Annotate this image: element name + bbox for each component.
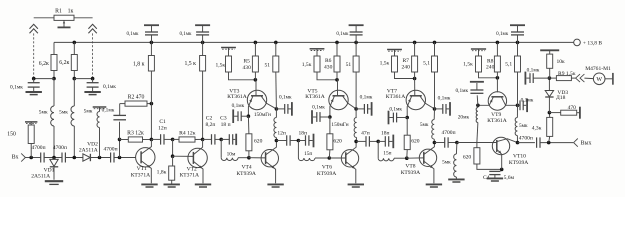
resistor R9 1,5к xyxy=(549,71,575,81)
node int4 xyxy=(455,141,459,145)
capacitor 0,1мк right bias xyxy=(87,79,117,91)
junction on supply rail xyxy=(354,41,358,45)
node VT3 emitter xyxy=(247,114,251,118)
svg-text:1,5к: 1,5к xyxy=(463,62,473,68)
junction on supply rail xyxy=(201,41,205,45)
wire VT2 collector column xyxy=(201,42,205,141)
ground VD1 xyxy=(45,181,63,184)
svg-text:4,3к: 4,3к xyxy=(532,125,542,131)
resistor 1,5 к VT2 load xyxy=(184,56,205,72)
node int3 xyxy=(376,140,380,144)
svg-text:150: 150 xyxy=(7,132,16,138)
wire 6,2k right bottom xyxy=(73,42,77,80)
junction on supply rail xyxy=(150,41,154,45)
resistor 1,8 к VT1 load xyxy=(133,56,154,72)
capacitor 0,1мк VT7 collector xyxy=(435,96,451,116)
resistor 1,5к VT3 xyxy=(215,56,231,72)
ground VT8 emitter xyxy=(426,184,442,187)
svg-text:КТ361А: КТ361А xyxy=(487,118,506,124)
tuning arrow right xyxy=(88,24,96,33)
junction on supply rail xyxy=(496,41,500,45)
svg-text:0,1мк: 0,1мк xyxy=(496,31,509,37)
ground bar C3 xyxy=(233,134,236,145)
ground right bias xyxy=(84,92,100,95)
svg-text:470: 470 xyxy=(568,105,577,111)
svg-text:5мк: 5мк xyxy=(519,123,528,129)
inductor 15п coupling coil 2 xyxy=(378,141,407,160)
ground left bias xyxy=(26,92,42,95)
diode VD3 Д18 xyxy=(545,78,568,113)
dashed tuning line right xyxy=(92,33,94,78)
resistor 1,5к VT9 xyxy=(463,56,481,72)
svg-text:КТ361А: КТ361А xyxy=(386,94,405,100)
svg-text:1к: 1к xyxy=(68,9,74,15)
resistor 5,1 VT9 xyxy=(505,42,520,105)
inductor 5мк choke 3 xyxy=(84,107,107,158)
svg-text:0,1мк: 0,1мк xyxy=(232,103,245,109)
node VT9 collector xyxy=(516,104,520,108)
svg-text:0,1мк: 0,1мк xyxy=(179,31,192,37)
svg-text:5мк: 5мк xyxy=(442,159,451,165)
svg-text:0,1мк: 0,1мк xyxy=(438,96,451,102)
capacitor 4700п input 2 xyxy=(53,145,67,163)
svg-text:8,2п: 8,2п xyxy=(205,122,215,128)
resistor 1,5к VT7 xyxy=(380,56,398,72)
chassis bar over 1,5к VT7 xyxy=(387,50,402,57)
svg-text:5мк: 5мк xyxy=(420,122,429,128)
svg-text:4700п: 4700п xyxy=(519,136,533,142)
node int2b left xyxy=(275,139,279,143)
ground VT4 emitter xyxy=(267,184,283,187)
capacitor 0,1мк VT9 collector xyxy=(518,97,534,112)
capacitor 0,1мк rail decoupling xyxy=(179,25,210,42)
svg-text:5мк: 5мк xyxy=(39,110,48,116)
transistor VT7 КТ361А xyxy=(386,79,435,118)
node int2 xyxy=(219,138,223,142)
capacitor 0,1мк VT3 collector xyxy=(276,95,292,116)
node R2-collector xyxy=(150,102,154,106)
capacitor 0,1мк rail decoupling xyxy=(126,25,159,42)
capacitor 12п xyxy=(276,131,298,146)
terminal +13,8 V xyxy=(574,39,603,46)
svg-text:5мк: 5мк xyxy=(59,110,68,116)
svg-text:VT8: VT8 xyxy=(405,164,415,170)
svg-text:КТ939А: КТ939А xyxy=(317,171,336,177)
svg-text:620: 620 xyxy=(254,139,263,145)
node VT3 collector xyxy=(275,107,279,111)
svg-text:620: 620 xyxy=(463,154,472,160)
svg-text:620: 620 xyxy=(411,139,420,145)
svg-text:5,1: 5,1 xyxy=(505,61,512,67)
svg-text:12п: 12п xyxy=(277,131,286,137)
svg-text:С2: С2 xyxy=(206,115,213,121)
svg-text:1,5к: 1,5к xyxy=(380,61,390,67)
resistor R6 430 xyxy=(324,42,340,79)
svg-text:0,1мк: 0,1мк xyxy=(126,31,139,37)
node VT2 base column xyxy=(171,138,175,142)
svg-text:0,1мк: 0,1мк xyxy=(103,84,116,90)
svg-text:0,1мк: 0,1мк xyxy=(360,95,373,101)
ground C4 xyxy=(487,178,503,181)
capacitor 4700п output xyxy=(518,136,541,148)
wire divider VT9 xyxy=(479,72,500,80)
svg-text:КТ939А: КТ939А xyxy=(509,160,528,166)
wire bias row left xyxy=(32,77,54,81)
resistor 620 VT10 xyxy=(463,148,480,164)
wire 620 to emitter xyxy=(477,164,502,169)
svg-text:51: 51 xyxy=(346,62,352,68)
resistor 4,3к xyxy=(532,113,553,143)
node VD1 xyxy=(52,156,56,160)
svg-text:240: 240 xyxy=(486,65,495,71)
transistor VT8 КТ939А xyxy=(401,143,437,184)
resistor 6,2к left xyxy=(39,55,57,71)
svg-text:1,5 к: 1,5 к xyxy=(184,61,196,67)
junction on supply rail xyxy=(73,41,77,45)
inductor 5мк VT9 choke xyxy=(515,105,528,142)
ground VT6 emitter xyxy=(348,184,364,187)
svg-text:1,8к: 1,8к xyxy=(157,170,167,176)
node VT7 emitter xyxy=(405,116,409,120)
svg-text:12п: 12п xyxy=(158,125,167,131)
inductor 150мГн VT3 xyxy=(254,109,277,141)
transistor VT6 КТ939А xyxy=(317,141,359,183)
svg-text:150мГн: 150мГн xyxy=(254,112,271,118)
node VT1 base xyxy=(118,156,122,160)
junction on supply rail xyxy=(274,41,278,45)
resistor 5,1 VT7 xyxy=(423,42,437,109)
resistor 51 VT5 xyxy=(346,42,359,109)
svg-text:КТ939А: КТ939А xyxy=(236,171,255,177)
wire int4 to VT10 base xyxy=(457,142,497,144)
transistor VT4 КТ939А xyxy=(236,141,278,184)
svg-text:R3 12к: R3 12к xyxy=(127,130,144,136)
inductor 5мк VT7 choke xyxy=(420,109,435,143)
resistor R2 470 xyxy=(120,94,152,106)
svg-text:R6: R6 xyxy=(325,58,332,64)
inductor 15п coupling coil xyxy=(298,141,329,161)
svg-text:4700п: 4700п xyxy=(103,147,117,153)
lamp terminal bar xyxy=(605,73,613,85)
capacitor 0,1мк left bias xyxy=(10,79,40,91)
svg-text:R5: R5 xyxy=(243,59,250,65)
wire +13.8V supply rail xyxy=(54,41,574,43)
transistor VT9 КТ361А xyxy=(478,78,518,124)
svg-text:15п: 15п xyxy=(304,151,312,157)
svg-text:R8: R8 xyxy=(487,58,494,64)
wire R1 right xyxy=(74,17,93,19)
svg-text:С1: С1 xyxy=(159,119,166,125)
ground VT2 emitter xyxy=(195,184,211,187)
node choke3 xyxy=(98,156,102,160)
capacitor C2 8,2п xyxy=(203,115,222,144)
capacitor 0,1мк VT3 emitter xyxy=(232,103,249,123)
terminal Вых xyxy=(574,139,592,147)
resistor R4 12к xyxy=(173,130,203,142)
svg-text:VT10: VT10 xyxy=(513,153,526,159)
node VT9 emitter xyxy=(476,104,480,108)
inductor 150мГн VT5 xyxy=(331,109,356,141)
node VT4 base xyxy=(247,156,251,160)
svg-text:5мк: 5мк xyxy=(84,108,93,114)
svg-text:Вх: Вх xyxy=(12,155,19,161)
wire divider VT5 xyxy=(317,72,339,82)
svg-text:18п: 18п xyxy=(381,131,390,137)
svg-text:430: 430 xyxy=(324,64,333,70)
node VT5 emitter xyxy=(328,115,332,119)
capacitor 0,1мк VT5 collector xyxy=(356,95,373,116)
svg-text:R2 470: R2 470 xyxy=(128,94,145,100)
node 470 xyxy=(548,111,552,115)
svg-text:5,6м: 5,6м xyxy=(504,175,515,181)
junction on supply rail xyxy=(254,41,258,45)
wire divider VT3 xyxy=(229,72,258,82)
capacitor 0,1мк VT7 emitter xyxy=(389,106,408,124)
wire base column VT1 xyxy=(118,138,122,158)
svg-text:5,1: 5,1 xyxy=(423,60,430,66)
svg-text:0,1мк: 0,1мк xyxy=(10,85,23,91)
svg-text:R7: R7 xyxy=(402,58,409,64)
diode VD2 2А511А xyxy=(79,142,98,162)
svg-text:620: 620 xyxy=(333,139,342,145)
svg-text:2А511А: 2А511А xyxy=(79,148,98,154)
svg-text:КТ371А: КТ371А xyxy=(180,173,199,179)
svg-text:VT2: VT2 xyxy=(187,166,197,172)
node int2b xyxy=(297,139,301,143)
capacitor C1 12п xyxy=(151,119,172,145)
svg-text:240: 240 xyxy=(402,64,411,70)
wire input line xyxy=(25,157,135,159)
capacitor 0,1мк VT1 feedback xyxy=(102,104,126,140)
resistor R1 1к xyxy=(54,9,74,21)
junction on supply rail xyxy=(433,41,437,45)
svg-text:4700п: 4700п xyxy=(31,145,45,151)
resistor 620 VT7 xyxy=(404,118,420,159)
wire VT2 base xyxy=(173,155,194,157)
capacitor 0,1мк VT5 emitter xyxy=(312,104,330,124)
capacitor 18п shunt xyxy=(298,131,309,146)
svg-text:0,1мк: 0,1мк xyxy=(279,95,292,101)
resistor 150 xyxy=(7,122,37,158)
svg-text:VT6: VT6 xyxy=(322,165,332,171)
chassis bar over 1,5к VT3 xyxy=(221,48,236,57)
resistor 10к xyxy=(540,50,565,78)
svg-text:R4 12к: R4 12к xyxy=(179,130,196,136)
ground bar 18п 2 xyxy=(389,135,393,149)
resistor R8 240 xyxy=(486,42,500,77)
svg-text:150мГн: 150мГн xyxy=(331,122,348,128)
lamp М4761-М1 xyxy=(584,66,611,85)
svg-text:6,2к: 6,2к xyxy=(39,61,49,67)
svg-text:20мк: 20мк xyxy=(458,114,470,120)
wire R1 left xyxy=(34,17,54,19)
svg-text:15п: 15п xyxy=(383,151,391,157)
svg-text:Вых: Вых xyxy=(581,141,592,147)
svg-text:0,1мк: 0,1мк xyxy=(527,67,540,73)
node VD2 anode xyxy=(73,156,77,160)
transistor VT3 КТ361А xyxy=(227,80,276,116)
inductor 10м coupling coil xyxy=(221,139,249,160)
capacitor 4700п input 3 xyxy=(103,147,117,163)
node int3 left xyxy=(354,140,358,144)
svg-text:КТ371А: КТ371А xyxy=(131,173,150,179)
capacitor 0,1мк rail decoupling xyxy=(336,25,363,42)
svg-text:1,5к: 1,5к xyxy=(302,62,312,68)
node VT5 collector xyxy=(354,107,358,111)
svg-text:КТ361А: КТ361А xyxy=(227,94,246,100)
capacitor 4700п input 1 xyxy=(31,145,45,163)
svg-text:18п: 18п xyxy=(299,131,308,137)
svg-text:2А511А: 2А511А xyxy=(31,174,50,180)
node 4,3к output xyxy=(547,141,551,145)
capacitor 4700п interstage xyxy=(434,130,457,148)
svg-text:VT4: VT4 xyxy=(242,165,252,171)
wire VT1 collector column xyxy=(150,42,154,141)
svg-text:Д18: Д18 xyxy=(556,95,566,101)
ground bar 18п xyxy=(309,134,313,148)
resistor 1,8к VT2 bias xyxy=(157,156,175,183)
svg-text:51: 51 xyxy=(265,62,271,68)
ground 1,8к xyxy=(164,184,180,187)
lamp connector arrows xyxy=(571,74,584,82)
svg-text:18 п: 18 п xyxy=(221,122,231,128)
resistor R7 240 xyxy=(402,42,418,78)
ground 5мк shunt xyxy=(448,179,464,182)
capacitor 0,1мк VT9 emitter xyxy=(455,82,483,106)
svg-text:47п: 47п xyxy=(361,131,370,137)
resistor R3 12к xyxy=(120,130,152,142)
wire rail corner to 6,2k xyxy=(53,42,55,54)
node VT6 base xyxy=(328,156,332,160)
node int4 left xyxy=(433,141,437,145)
chassis bar over 1,5к VT5 xyxy=(310,49,325,56)
svg-text:0,1мк: 0,1мк xyxy=(455,88,468,94)
capacitor C4 5,6м xyxy=(483,169,514,181)
transistor VT2 КТ371А xyxy=(180,139,208,183)
resistor 6,2к right xyxy=(59,55,77,71)
resistor 620 VT3 xyxy=(246,116,263,158)
node VT10 emitter xyxy=(500,168,504,172)
node VT7 collector xyxy=(433,107,437,111)
chassis bar over 1,5к VT9 xyxy=(471,49,486,56)
resistor 51 VT3 xyxy=(265,42,279,109)
terminal Вх xyxy=(12,153,26,161)
wire VT2 base column xyxy=(171,139,175,158)
svg-text:1,5к: 1,5к xyxy=(215,62,225,68)
wire output xyxy=(540,142,573,144)
svg-text:10к: 10к xyxy=(556,59,565,65)
diode VD1 2А511А xyxy=(31,158,58,180)
svg-text:R1: R1 xyxy=(55,9,62,15)
svg-text:0,1мк: 0,1мк xyxy=(521,97,534,103)
capacitor 0,1мк lamp xyxy=(525,67,549,84)
wire 6,2k left bottom xyxy=(52,71,56,81)
wire bias row right xyxy=(74,77,94,81)
svg-text:1,8 к: 1,8 к xyxy=(133,61,145,67)
svg-text:10м: 10м xyxy=(227,152,236,158)
resistor 620 VT5 xyxy=(327,117,342,158)
capacitor 47п xyxy=(356,131,378,147)
junction on supply rail xyxy=(413,41,417,45)
svg-text:430: 430 xyxy=(243,65,252,71)
inductor 5мк right choke xyxy=(59,79,74,158)
transistor VT10 КТ939А xyxy=(492,137,528,169)
svg-text:6,2к: 6,2к xyxy=(59,60,69,66)
dashed tuning line left xyxy=(33,33,35,78)
svg-text:+ 13,8 В: + 13,8 В xyxy=(583,40,602,46)
capacitor C3 18 п shunt xyxy=(220,115,233,144)
svg-text:VT1: VT1 xyxy=(137,166,147,172)
svg-text:КТ939А: КТ939А xyxy=(401,170,420,176)
node VT10 collector xyxy=(516,141,520,145)
svg-text:КТ361А: КТ361А xyxy=(305,94,324,100)
svg-text:0,1мк: 0,1мк xyxy=(389,106,402,112)
capacitor 18п shunt 2 xyxy=(378,131,389,147)
ground VT1 emitter xyxy=(141,184,157,187)
junction on supply rail xyxy=(335,41,339,45)
inductor 20мк xyxy=(458,105,478,142)
resistor R5 430 xyxy=(243,42,259,79)
resistor 470 xyxy=(549,105,580,119)
node input-150 xyxy=(29,156,33,160)
svg-text:0,1мк: 0,1мк xyxy=(312,104,325,110)
tuning arrow left xyxy=(30,24,38,33)
svg-text:0,1мк: 0,1мк xyxy=(336,31,349,37)
transistor VT1 КТ371А xyxy=(131,139,155,183)
capacitor 0,1мк rail decoupling xyxy=(496,25,525,42)
R1 wiper to chassis xyxy=(58,20,71,27)
transistor VT5 КТ361А xyxy=(305,80,356,117)
inductor 5мк shunt xyxy=(442,143,457,180)
node VT8 base xyxy=(405,156,409,160)
svg-text:4700п: 4700п xyxy=(53,145,67,151)
svg-text:С3: С3 xyxy=(220,115,227,121)
svg-text:М4761-М1: М4761-М1 xyxy=(585,66,611,72)
svg-text:0,1мк: 0,1мк xyxy=(102,108,115,114)
svg-text:W: W xyxy=(596,77,602,83)
wire 20мк to 620 xyxy=(476,142,478,148)
inductor 5мк left choke xyxy=(39,79,54,158)
junction on supply rail xyxy=(516,41,520,45)
wire divider VT7 xyxy=(395,72,417,80)
resistor 1,5к VT5 xyxy=(302,56,320,72)
svg-text:4700п: 4700п xyxy=(441,130,455,136)
node R9 xyxy=(548,76,552,80)
svg-text:R9 1,5к: R9 1,5к xyxy=(558,71,576,77)
svg-text:VD1: VD1 xyxy=(44,167,55,173)
